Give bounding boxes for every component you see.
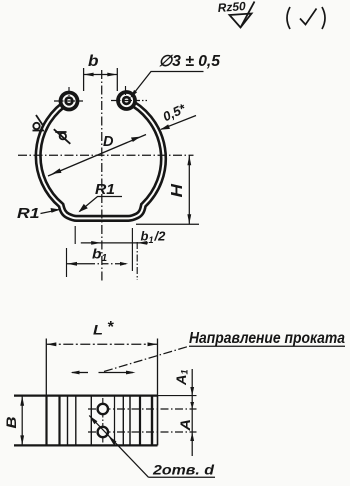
right curl — [116, 90, 137, 111]
rolling direction leader (dash-dot) — [104, 346, 189, 371]
dimension b — [84, 53, 118, 91]
dimension D diagonal — [48, 134, 146, 176]
dimension b1 — [67, 246, 128, 266]
dimension H — [136, 155, 199, 224]
horizontal center line — [18, 154, 194, 156]
svg-text:L: L — [93, 322, 103, 338]
left curl — [59, 91, 80, 112]
dimension 0,5* wall thickness — [160, 100, 196, 129]
dimension L* (top line of plan view) — [46, 319, 157, 346]
label: Napravlenie prokata — [189, 330, 345, 347]
label 2 otv. d — [89, 416, 215, 478]
hole center line top — [88, 408, 197, 410]
svg-text:b: b — [88, 53, 99, 70]
svg-text:1: 1 — [102, 253, 108, 264]
plan view right side — [157, 339, 159, 397]
dimension B — [3, 396, 24, 446]
roughness symbol triangle — [230, 2, 255, 28]
svg-text:Rz50: Rz50 — [217, 0, 246, 15]
svg-text:/2: /2 — [154, 229, 167, 244]
profile wall outline (clip cross-section) — [38, 100, 163, 218]
dimension A1 and A — [158, 369, 197, 456]
surface mark 1 (check with circle, outer wall) — [33, 115, 45, 131]
svg-text:B: B — [3, 417, 19, 429]
surface mark 2 (check with circle, inner wall) — [54, 129, 71, 144]
svg-text:A: A — [173, 375, 189, 387]
extension line b1 right — [131, 228, 133, 271]
hole bottom — [98, 427, 108, 437]
right curl center mark — [111, 86, 147, 101]
vertical center line — [101, 70, 103, 282]
svg-text:1: 1 — [149, 235, 154, 245]
svg-text:b: b — [141, 229, 149, 244]
plan view left side — [45, 339, 47, 397]
band (side strip) outline — [14, 396, 158, 446]
svg-text:2отв. d: 2отв. d — [152, 462, 215, 478]
hole top — [98, 404, 108, 414]
svg-text:A: A — [177, 419, 193, 432]
label R1 left — [17, 205, 60, 222]
bottom extension line for H — [136, 223, 199, 225]
rolling direction arrows — [71, 371, 136, 375]
rest-of-surfaces mark (check in parentheses) — [287, 7, 325, 29]
svg-text:b: b — [92, 246, 102, 262]
svg-text:Направление проката: Направление проката — [189, 330, 345, 347]
extension line channel left corner — [74, 226, 76, 244]
extension line b1 left — [66, 248, 68, 277]
band internal lines — [47, 396, 153, 445]
extension line b1/2 right (dash-dot) — [136, 242, 138, 280]
hole center vertical line — [102, 398, 104, 448]
dimension dia 3 +-0,5 — [130, 53, 220, 98]
svg-text:∅3 ± 0,5: ∅3 ± 0,5 — [159, 53, 221, 70]
svg-text:R1: R1 — [17, 205, 40, 222]
svg-text:D: D — [103, 134, 114, 150]
dimension b1/2 — [81, 229, 166, 246]
profile wall white core — [38, 100, 163, 218]
label R1 upper — [79, 181, 123, 212]
svg-text:*: * — [107, 319, 114, 336]
left curl center mark — [54, 87, 85, 101]
svg-text:H: H — [169, 183, 186, 197]
svg-text:1: 1 — [180, 369, 190, 374]
svg-text:R1: R1 — [95, 181, 115, 198]
hole center line bottom — [88, 431, 197, 433]
